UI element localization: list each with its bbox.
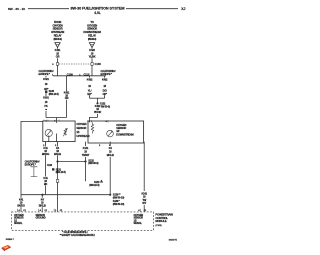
splice square S146 bbox=[45, 91, 47, 93]
svg-text:PK/OR: PK/OR bbox=[94, 110, 102, 114]
svg-text:YL/BK: YL/BK bbox=[89, 55, 96, 59]
splice dot on bus right bbox=[109, 194, 111, 196]
svg-text:(8W-30-10): (8W-30-10) bbox=[113, 202, 125, 206]
wire label K4 18 BK/LB to pcm bbox=[39, 197, 46, 207]
footer red logo bbox=[2, 245, 12, 251]
wire label K421 18 OR bbox=[54, 48, 62, 58]
svg-text:OXYGEN: OXYGEN bbox=[53, 23, 63, 27]
svg-text:PK: PK bbox=[44, 104, 48, 108]
svg-text:OR: OR bbox=[65, 96, 69, 100]
svg-text:(8W-30-9): (8W-30-9) bbox=[53, 39, 62, 41]
svg-text:YL/: YL/ bbox=[88, 88, 92, 92]
in-line connector symbol on left wire bbox=[56, 63, 58, 66]
svg-text:GROUND: GROUND bbox=[36, 217, 46, 220]
svg-text:8W-30 FUEL/IGNITION SYSTEM: 8W-30 FUEL/IGNITION SYSTEM bbox=[71, 7, 125, 11]
wire label K141 18 TN/WT bbox=[82, 146, 90, 157]
header rule left bbox=[28, 8, 69, 10]
wire label K422 18 YL* bbox=[86, 78, 93, 96]
svg-text:K421: K421 bbox=[43, 77, 49, 81]
splice dot right end tie bbox=[84, 160, 86, 162]
splice dot S131 on return wire bbox=[56, 160, 58, 162]
svg-text:J988W-7: J988W-7 bbox=[6, 239, 15, 241]
optional section bracket bbox=[31, 167, 38, 177]
svg-text:C109: C109 bbox=[67, 73, 74, 76]
bottom cavity labels right box bbox=[99, 145, 111, 147]
svg-text:4.0L: 4.0L bbox=[94, 11, 100, 15]
heater resistor zigzag left box bbox=[56, 121, 58, 123]
oxygen sensor 1/2 downstream box bbox=[88, 121, 144, 143]
svg-text:K422: K422 bbox=[87, 78, 93, 82]
header rule right bbox=[126, 8, 178, 10]
wire label K41 18 BK/DG to pcm bbox=[17, 197, 25, 207]
pcm pin label oxygen sensor signal bbox=[14, 214, 24, 225]
splice dot on bus left bbox=[41, 194, 43, 196]
svg-text:8W - 30 - 10: 8W - 30 - 10 bbox=[8, 7, 25, 11]
oxygen sensor 1/1 upstream box bbox=[43, 121, 75, 142]
left sensor box cavity marks bbox=[45, 120, 56, 122]
svg-text:BK/LB: BK/LB bbox=[54, 152, 61, 156]
splice square S131 note bbox=[52, 168, 54, 170]
wire label K421 18 OR** bbox=[63, 91, 70, 101]
svg-text:BK/DG: BK/DG bbox=[42, 152, 50, 156]
svg-text:8025975: 8025975 bbox=[169, 239, 178, 241]
svg-text:RELAY: RELAY bbox=[54, 34, 62, 38]
svg-text:OR*: OR* bbox=[102, 92, 106, 96]
svg-text:OXYGEN: OXYGEN bbox=[76, 122, 86, 126]
wire label K422 18 YL/BK bbox=[87, 48, 97, 58]
wire V3 right group california bbox=[89, 76, 91, 98]
wire into left sensor box bbox=[56, 118, 58, 122]
header page number bbox=[8, 7, 25, 11]
svg-text:FROM: FROM bbox=[54, 20, 62, 24]
wire label K901 18 PK** bbox=[43, 96, 50, 113]
svg-text:(8W-30-9): (8W-30-9) bbox=[88, 39, 97, 41]
wire label K4 18 BK/LB bbox=[54, 146, 61, 156]
pcm cavity marks bbox=[18, 209, 147, 212]
svg-text:C138: C138 bbox=[95, 62, 102, 66]
wire K422 upper right bbox=[91, 47, 93, 75]
pcm pin label oxygen sensor 1/2 signal bbox=[134, 214, 144, 225]
sensor ground bus bbox=[21, 194, 110, 196]
wire V1 california heater feed left bbox=[45, 76, 47, 118]
pcm pin label sensor ground bbox=[36, 214, 46, 220]
svg-text:EUROPE *: EUROPE * bbox=[25, 163, 36, 167]
svg-text:OR: OR bbox=[56, 55, 60, 59]
in-line connector symbol on right wire bbox=[91, 63, 93, 66]
svg-text:XJ: XJ bbox=[181, 7, 185, 11]
heater resistor zigzag right box bbox=[91, 122, 94, 133]
wire K421 upper left bbox=[57, 47, 59, 75]
svg-text:K422: K422 bbox=[102, 78, 108, 82]
svg-text:SENSOR: SENSOR bbox=[76, 126, 86, 130]
splice label S138 bbox=[113, 192, 125, 206]
svg-text:BK/LB: BK/LB bbox=[39, 203, 46, 207]
svg-text:DOWNSTREAM: DOWNSTREAM bbox=[116, 132, 133, 136]
sensor element symbol circle right box bbox=[107, 130, 114, 137]
wire label K141 to pcm bbox=[140, 191, 148, 205]
svg-text:(C105): (C105) bbox=[155, 225, 161, 227]
wire label C20 18 DG/OR bbox=[101, 78, 108, 96]
svg-text:SENSOR: SENSOR bbox=[53, 27, 63, 31]
in-line connector bar C109/C110 bbox=[53, 75, 106, 77]
svg-text:* CALIFORNIA/EUROPE I: * CALIFORNIA/EUROPE I bbox=[62, 231, 88, 234]
ground marker triangle bbox=[100, 180, 103, 183]
svg-text:BK/LB: BK/LB bbox=[107, 153, 114, 157]
svg-text:RELAY: RELAY bbox=[88, 34, 96, 38]
wire V2 alternate heater feed left bbox=[66, 76, 68, 118]
connector triangle right bbox=[89, 43, 94, 48]
merge bar right group bbox=[90, 97, 105, 99]
svg-text:** EXCEPT CALIFORNIA/EUROPE I: ** EXCEPT CALIFORNIA/EUROPE I bbox=[60, 234, 96, 237]
merged wire down bbox=[97, 98, 99, 117]
splice label S132 right bbox=[88, 158, 98, 165]
svg-text:UPSTREAM: UPSTREAM bbox=[76, 134, 89, 138]
powertrain control module dashed box bbox=[12, 212, 154, 230]
dashed connector tie line bbox=[59, 63, 91, 65]
note california/europe top right bbox=[101, 69, 116, 76]
connector stub on return wire bbox=[56, 179, 59, 182]
svg-text:BK/DG: BK/DG bbox=[17, 203, 25, 207]
svg-text:SIGNAL: SIGNAL bbox=[134, 222, 143, 225]
svg-text:C126: C126 bbox=[47, 165, 53, 167]
svg-text:UPSTREAM: UPSTREAM bbox=[51, 30, 65, 34]
svg-text:K141: K141 bbox=[83, 146, 89, 150]
legend notes bbox=[60, 231, 96, 237]
svg-text:K901: K901 bbox=[43, 96, 49, 100]
svg-text:DOWNSTREAM: DOWNSTREAM bbox=[83, 30, 101, 34]
wires exiting right box bottom bbox=[85, 142, 87, 182]
wires exiting left box bottom bbox=[45, 142, 47, 195]
header model code XJ bbox=[181, 7, 185, 11]
svg-text:BK*: BK* bbox=[87, 92, 91, 96]
note california/europe left of wire bbox=[39, 69, 54, 76]
svg-text:TN/WT: TN/WT bbox=[82, 153, 90, 157]
note california/europe lower left bbox=[25, 160, 40, 167]
header title bbox=[71, 7, 125, 16]
jog into right sensor box bbox=[90, 117, 98, 122]
jog from left signal wire to pcm pin bbox=[41, 195, 43, 212]
svg-text:(8W-10-5): (8W-10-5) bbox=[56, 170, 66, 174]
node: to oxygen sensor downstream relay label bbox=[83, 20, 101, 41]
svg-text:EUROPE *: EUROPE * bbox=[39, 72, 50, 76]
node: from oxygen sensor upstream relay label bbox=[51, 20, 65, 41]
svg-text:OXYGEN: OXYGEN bbox=[87, 23, 97, 27]
powertrain control module name bbox=[155, 212, 172, 223]
svg-text:TO: TO bbox=[90, 20, 93, 24]
svg-text:BK: BK bbox=[44, 182, 48, 186]
wire K41 signal from box corner to pcm bbox=[21, 122, 43, 212]
ground tie bar bbox=[58, 161, 86, 163]
wire label K422 18 OR below splice bbox=[94, 104, 102, 114]
sensor element symbol circle left box bbox=[45, 129, 52, 136]
svg-text:(8W-30-9): (8W-30-9) bbox=[100, 104, 110, 108]
connector triangle left bbox=[55, 43, 60, 48]
splice dot S132 bbox=[96, 102, 98, 104]
svg-text:SENSOR: SENSOR bbox=[87, 27, 97, 31]
merge bar left group bbox=[46, 117, 67, 119]
svg-text:SIGNAL: SIGNAL bbox=[14, 222, 23, 225]
wire label K4 18 BK/LB right bbox=[107, 146, 114, 157]
bottom cavity labels left box bbox=[43, 145, 57, 147]
svg-text:(8W-30-9): (8W-30-9) bbox=[88, 161, 98, 165]
svg-text:(8W-10-5): (8W-10-5) bbox=[49, 92, 59, 96]
wire label G 18 BK bbox=[42, 176, 49, 186]
wire label K421 18 OR* bbox=[43, 77, 50, 91]
right sensor box cavity marks bbox=[87, 120, 107, 123]
svg-text:C110: C110 bbox=[84, 73, 90, 76]
svg-text:(8W-10-5): (8W-10-5) bbox=[89, 183, 99, 187]
svg-text:**: ** bbox=[45, 108, 47, 112]
svg-text:EUROPE *: EUROPE * bbox=[101, 72, 112, 76]
svg-text:MODULE: MODULE bbox=[155, 219, 166, 223]
svg-text:DG/: DG/ bbox=[103, 88, 107, 92]
svg-text:WT: WT bbox=[142, 201, 146, 205]
wire V4 right group except california bbox=[104, 76, 106, 98]
wire label K41 18 BK/DG bbox=[42, 146, 50, 156]
